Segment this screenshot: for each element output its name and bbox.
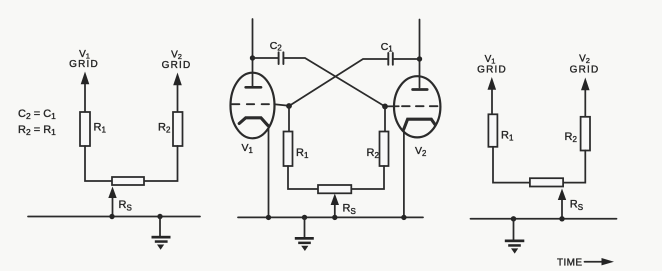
svg-text:R1: R1 xyxy=(296,147,309,160)
wire to ground (right panel) xyxy=(513,219,515,240)
svg-text:GRID: GRID xyxy=(477,65,507,76)
svg-text:C2: C2 xyxy=(270,40,282,53)
junction dot at Rs tap (left panel) xyxy=(109,214,114,219)
wire to ground (middle panel) xyxy=(304,217,306,237)
V2 anode plate xyxy=(413,88,428,91)
svg-text:GRID: GRID xyxy=(69,59,99,70)
node V2 GRID (right panel) xyxy=(570,54,600,76)
V2 grid (dashed) xyxy=(402,105,438,107)
resistor R2 (left panel) xyxy=(173,112,183,146)
junction dot V1 cathode (middle panel) xyxy=(266,215,271,220)
label Rs (left panel) xyxy=(119,199,132,213)
label Rs (middle panel) xyxy=(343,203,356,217)
svg-text:R2: R2 xyxy=(565,131,578,144)
arrow tap to Rs left end (left panel) xyxy=(108,187,116,217)
wire V1 cathode lead down xyxy=(268,125,270,217)
capacitor C1 xyxy=(388,53,393,65)
wire R1 bottom to Rs (right panel) xyxy=(493,147,530,183)
node V1 grid junction xyxy=(286,103,292,109)
wire to ground (left panel) xyxy=(159,217,161,237)
wire V2 grid to junction xyxy=(385,105,399,107)
V1 anode plate xyxy=(246,86,261,89)
svg-text:RS: RS xyxy=(343,203,356,217)
svg-text:GRID: GRID xyxy=(162,60,192,71)
svg-text:R2: R2 xyxy=(158,122,171,135)
node V2 anode junction xyxy=(417,56,422,61)
wire R2 bottom to Rs (left panel) xyxy=(144,146,178,181)
svg-text:RS: RS xyxy=(570,199,583,213)
arrow to V1 grid (left panel) xyxy=(81,72,90,114)
svg-text:V1: V1 xyxy=(242,142,253,155)
resistor R1 (middle panel) xyxy=(284,132,293,167)
label C2 xyxy=(270,40,282,53)
resistor R2 (right panel) xyxy=(581,117,590,151)
arrow to V2 grid (left panel) xyxy=(173,73,182,114)
label TIME xyxy=(557,257,583,268)
resistor Rs (left panel) xyxy=(112,177,144,185)
resistor Rs (right panel) xyxy=(530,178,563,186)
svg-text:C2 = C1: C2 = C1 xyxy=(18,108,56,121)
junction dot at Rs tap (right panel) xyxy=(559,216,564,221)
svg-text:R2 = R1: R2 = R1 xyxy=(18,124,56,137)
node V1 GRID (left panel) xyxy=(69,49,99,70)
ground bus wire (left panel) xyxy=(28,216,200,218)
svg-text:C1: C1 xyxy=(381,41,393,54)
junction dot at ground lead (right panel) xyxy=(511,216,516,221)
svg-text:V2: V2 xyxy=(579,54,590,66)
arrow to V2 grid (right panel) xyxy=(581,78,590,118)
svg-text:GRID: GRID xyxy=(570,65,600,76)
capacitor C2 xyxy=(279,52,284,64)
svg-text:RS: RS xyxy=(119,199,132,213)
wire R1 bottom to Rs (middle panel) xyxy=(288,166,318,189)
junction dot at ground lead (middle panel) xyxy=(302,215,307,220)
arrow tap to Rs right end (right panel) xyxy=(558,189,566,219)
arrow to V1 grid (right panel) xyxy=(488,77,497,115)
svg-text:R2: R2 xyxy=(367,147,380,160)
wire grid junction to R1 xyxy=(288,106,290,132)
note C2 = C1 xyxy=(18,108,56,121)
resistor R2 (middle panel) xyxy=(380,132,389,167)
label R2 (right panel) xyxy=(565,131,578,144)
triode V1 envelope xyxy=(231,73,275,139)
label R1 (middle panel) xyxy=(296,147,309,160)
resistor Rs (middle panel) xyxy=(318,185,351,193)
svg-text:TIME: TIME xyxy=(557,257,583,268)
arrow TIME xyxy=(585,258,615,265)
label V2 xyxy=(415,145,426,158)
label R2 (left panel) xyxy=(158,122,171,135)
junction dot at Rs tap (middle panel) xyxy=(332,215,337,220)
resistor R1 (right panel) xyxy=(488,114,497,147)
wire C1 to V1 grid (cross-coupling) xyxy=(289,59,388,106)
node V2 grid junction xyxy=(382,104,388,110)
label V1 xyxy=(242,142,253,155)
resistor R1 (left panel) xyxy=(80,112,90,146)
note R2 = R1 xyxy=(18,124,56,137)
ground (left panel) xyxy=(152,236,171,250)
arrow tap to Rs center (middle panel) xyxy=(331,194,339,218)
wire V1 anode lead up xyxy=(252,19,254,86)
ground (right panel) xyxy=(505,240,525,254)
label R2 (middle panel) xyxy=(367,147,380,160)
junction dot at ground lead (left panel) xyxy=(157,214,162,219)
wire R1 bottom to Rs (left panel) xyxy=(85,146,112,181)
label Rs (right panel) xyxy=(570,199,583,213)
svg-text:R1: R1 xyxy=(94,122,107,135)
wire R2 bottom to Rs (middle panel) xyxy=(351,166,384,189)
junction dot V2 cathode (middle panel) xyxy=(401,215,406,220)
ground bus wire (right panel) xyxy=(471,218,617,220)
label R1 (right panel) xyxy=(501,130,514,143)
ground bus wire (middle panel) xyxy=(238,216,423,218)
wire V1 grid to junction xyxy=(274,104,289,106)
label R1 (left panel) xyxy=(94,122,107,135)
wire V2 cathode lead down xyxy=(403,129,405,218)
wire R2 bottom to Rs (right panel) xyxy=(563,151,585,183)
V2 cathode xyxy=(404,119,435,129)
V1 grid (dashed) xyxy=(232,103,269,105)
node V1 GRID (right panel) xyxy=(477,54,507,76)
node V2 GRID (left panel) xyxy=(162,50,192,72)
wire C2 to V2 grid (cross-coupling) xyxy=(283,58,385,107)
label C1 xyxy=(381,41,393,54)
wire grid junction to R2 xyxy=(384,107,386,132)
svg-text:V2: V2 xyxy=(415,145,426,158)
wire V2 anode lead up xyxy=(419,20,421,88)
wire anode junction to C1 xyxy=(393,58,420,60)
ground (middle panel) xyxy=(295,237,314,251)
triode V2 envelope xyxy=(394,76,440,137)
node V1 anode junction xyxy=(250,55,255,60)
svg-text:R1: R1 xyxy=(501,130,514,143)
V1 cathode xyxy=(239,118,268,126)
wire anode junction to C2 xyxy=(253,57,279,59)
